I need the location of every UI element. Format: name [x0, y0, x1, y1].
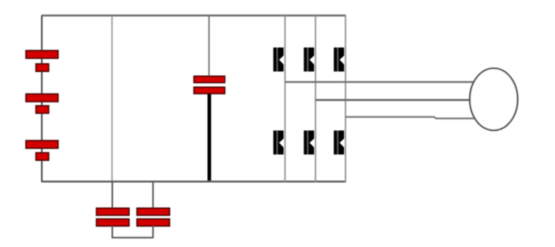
wire: bottom DC- bus — [42, 181, 347, 183]
battery cell 1 short plate — [36, 64, 49, 71]
transistor Q3 (leg 3 upper IGBT) — [334, 48, 344, 72]
motor M — [470, 68, 518, 130]
capacitor C3 bottom plate — [137, 219, 170, 226]
wire: capacitor C2 top lead — [111, 182, 113, 209]
battery cell 3 short plate — [36, 153, 49, 160]
battery cell 3 long plate — [26, 141, 58, 149]
capacitor C2 top plate — [97, 208, 130, 215]
wire: phase B line to motor — [316, 99, 471, 101]
wire: phase A line to motor — [285, 81, 474, 83]
wire: top DC+ bus — [42, 15, 347, 17]
battery cell 2 long plate — [26, 94, 58, 102]
wire: link joining C2 and C3 bottom plates — [112, 226, 153, 238]
capacitor C3 top plate — [137, 208, 170, 215]
transistor Q2 (leg 2 upper IGBT) — [304, 48, 314, 72]
transistor Q5 (leg 2 lower IGBT) — [304, 131, 314, 155]
wire: phase C line to motor — [346, 117, 476, 119]
wire: thick capacitor C1 bottom lead — [208, 94, 212, 182]
transistor Q6 (leg 3 lower IGBT) — [334, 131, 344, 155]
transistor Q4 (leg 1 lower IGBT) — [273, 131, 283, 155]
battery cell 2 short plate — [36, 106, 49, 113]
transistor Q1 (leg 1 upper IGBT) — [273, 48, 283, 72]
capacitor C1 bottom plate — [194, 87, 225, 93]
wire: capacitor C3 top lead — [152, 182, 154, 209]
capacitor C1 top plate — [194, 76, 225, 82]
battery cell 1 long plate — [26, 51, 58, 59]
wire: inverter leg 1 vertical — [284, 16, 286, 183]
wire: inverter leg 2 vertical — [315, 16, 317, 183]
capacitor C2 bottom plate — [97, 219, 130, 226]
wire: inverter leg 3 vertical — [345, 16, 347, 183]
wire: battery branch vertical — [41, 16, 43, 183]
wire: DC-link capacitor top lead — [208, 16, 210, 78]
wire: middle vertical rail — [111, 16, 113, 183]
